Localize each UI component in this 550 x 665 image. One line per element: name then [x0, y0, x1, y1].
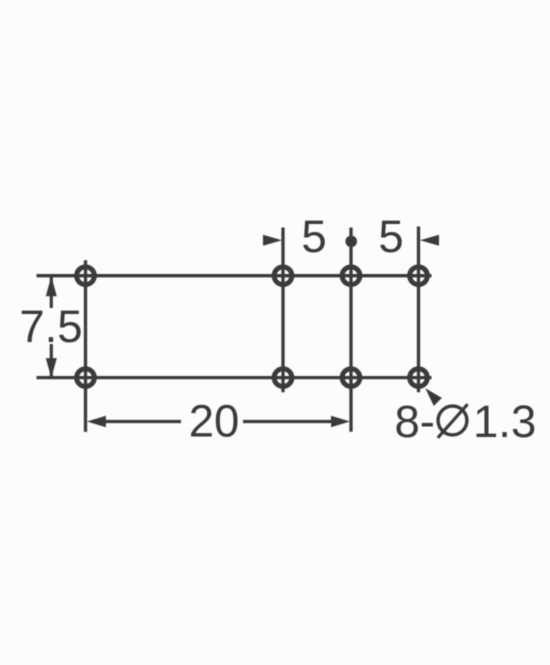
svg-text:1.3: 1.3	[473, 396, 536, 447]
hole bottom row 4	[410, 369, 428, 387]
svg-text:5: 5	[378, 211, 403, 262]
wire top edge	[37, 274, 432, 277]
wire vertical column 1	[84, 260, 87, 432]
wire vertical column 2	[281, 228, 284, 393]
dimension 7.5 arrow down	[46, 358, 57, 378]
hole top row 4	[410, 267, 428, 285]
diameter symbol circle	[438, 406, 467, 435]
svg-text:8-: 8-	[395, 396, 435, 447]
leader arrow to hole	[425, 388, 442, 406]
dimension 7.5 shaft	[50, 277, 53, 377]
dimension 20 left arrow	[87, 416, 106, 427]
dimension 5 left arrow	[263, 235, 282, 246]
hole top row 3	[342, 267, 360, 285]
wire bottom edge	[37, 376, 432, 379]
hole top row 2	[274, 267, 292, 285]
dimension 5 right arrow	[420, 235, 439, 246]
text mask for 7.5	[20, 308, 82, 344]
wire vertical column 3	[349, 228, 352, 432]
dimension 20 left tail	[105, 420, 181, 423]
dimension 20 right arrow	[331, 416, 350, 427]
svg-text:20: 20	[189, 396, 240, 447]
dimension 7.5 arrow up	[46, 276, 57, 296]
hole bottom row 3	[342, 369, 360, 387]
dimension 20 right tail	[243, 420, 332, 423]
svg-text:5: 5	[301, 211, 326, 262]
svg-text:7.5: 7.5	[19, 301, 82, 352]
hole top row 1	[77, 267, 95, 285]
dimension dot	[345, 236, 357, 248]
hole bottom row 2	[274, 369, 292, 387]
wire vertical column 4	[417, 227, 420, 393]
diameter symbol slash	[438, 404, 468, 438]
hole bottom row 1	[77, 369, 95, 387]
